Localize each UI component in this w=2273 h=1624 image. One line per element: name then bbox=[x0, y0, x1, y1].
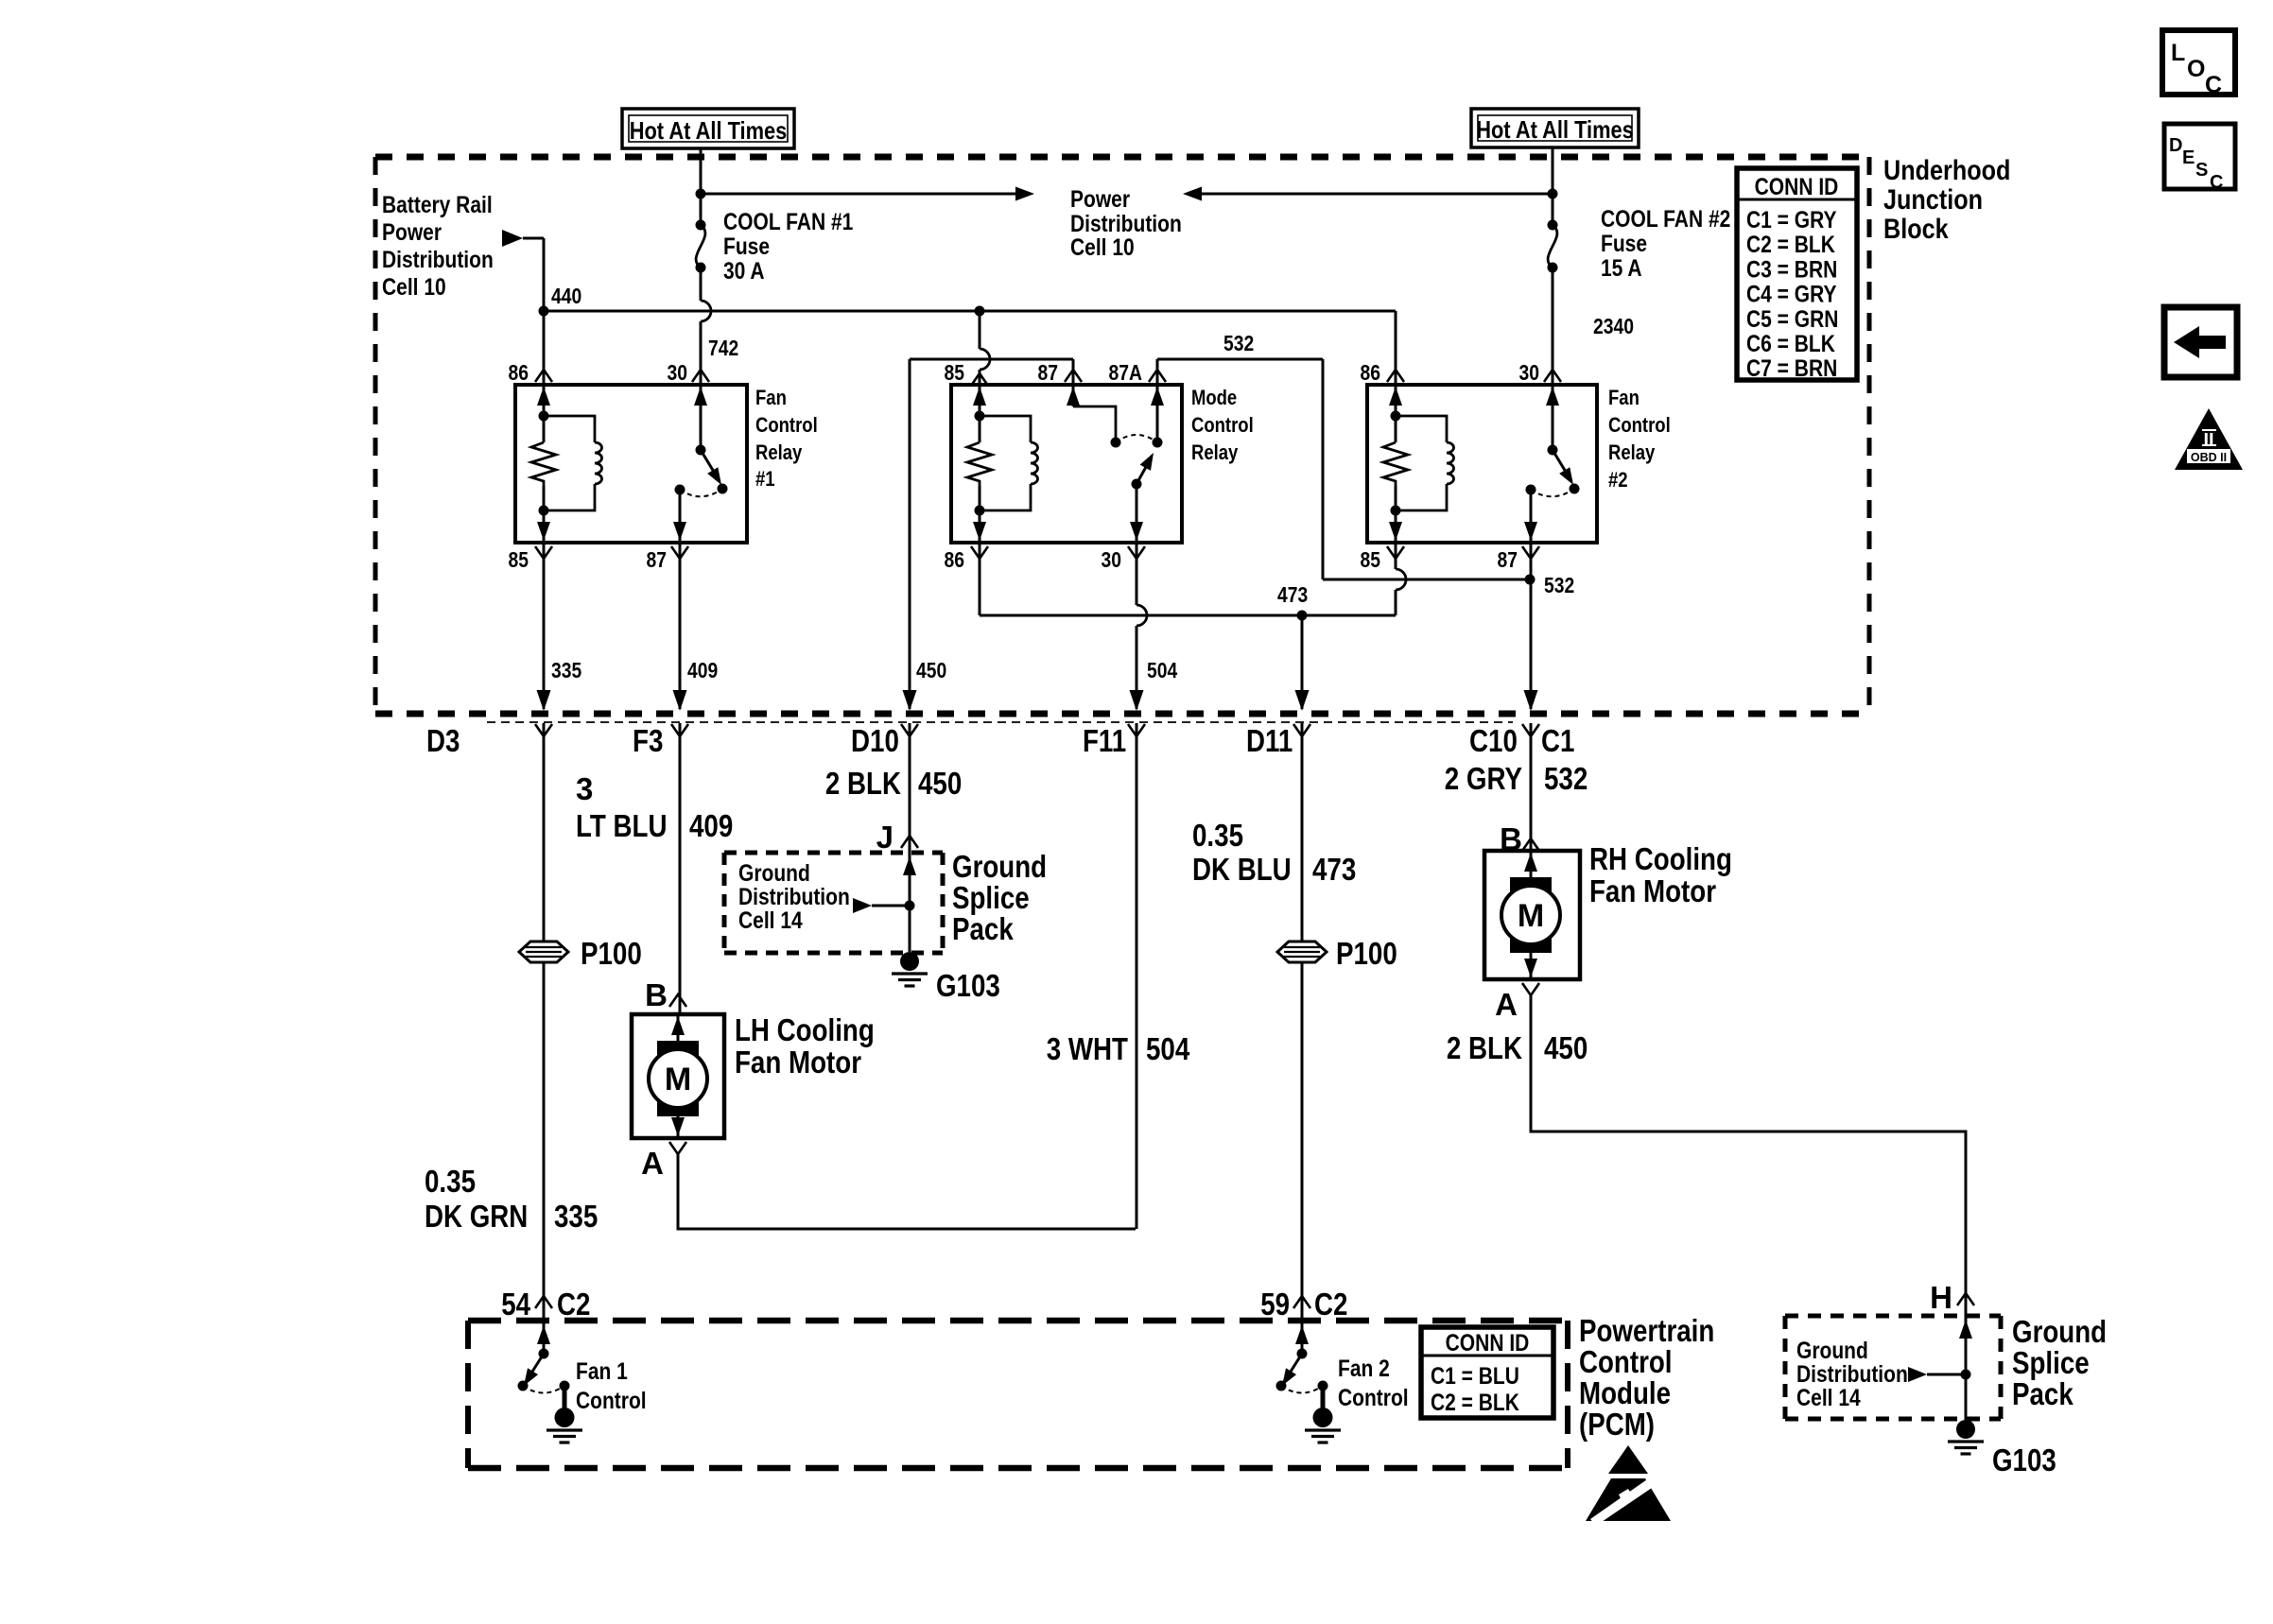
Hot At All Times box 1 bbox=[622, 109, 794, 148]
svg-text:C4 = GRY: C4 = GRY bbox=[1746, 282, 1837, 308]
svg-text:Fan: Fan bbox=[755, 386, 787, 409]
connector P100 on wire 335 bbox=[519, 936, 642, 971]
svg-text:2 GRY: 2 GRY bbox=[1445, 761, 1522, 796]
svg-text:C2: C2 bbox=[1314, 1287, 1347, 1322]
pin 54 C2 bbox=[501, 1287, 590, 1322]
svg-text:30 A: 30 A bbox=[723, 258, 765, 285]
wire 504 mode-30 to F11 (hops 473) bbox=[1130, 543, 1178, 711]
pin J bbox=[876, 820, 918, 855]
svg-text:COOL FAN #2: COOL FAN #2 bbox=[1601, 206, 1730, 233]
svg-text:CONN ID: CONN ID bbox=[1446, 1330, 1530, 1356]
svg-text:O: O bbox=[2187, 56, 2205, 82]
svg-text:15 A: 15 A bbox=[1601, 255, 1642, 282]
svg-text:Cell 14: Cell 14 bbox=[1796, 1385, 1861, 1411]
svg-text:Powertrain: Powertrain bbox=[1579, 1313, 1714, 1348]
svg-text:Junction: Junction bbox=[1883, 184, 1983, 216]
svg-text:C2 = BLK: C2 = BLK bbox=[1431, 1390, 1519, 1416]
svg-text:Control: Control bbox=[1608, 413, 1671, 437]
svg-text:(PCM): (PCM) bbox=[1579, 1407, 1655, 1442]
svg-text:A: A bbox=[641, 1146, 664, 1181]
wire 440 horizontal bbox=[544, 310, 1396, 313]
label 3 LT BLU 409 bbox=[576, 771, 733, 843]
svg-text:86: 86 bbox=[945, 547, 965, 572]
label 3 WHT 504 bbox=[1047, 1031, 1190, 1066]
svg-text:H: H bbox=[1930, 1280, 1952, 1315]
svg-text:85: 85 bbox=[509, 547, 529, 572]
svg-text:450: 450 bbox=[916, 658, 946, 682]
label Battery Rail Power Distribution Cell 10 bbox=[382, 192, 494, 301]
svg-text:RH Cooling: RH Cooling bbox=[1589, 841, 1732, 876]
svg-text:C6 = BLK: C6 = BLK bbox=[1746, 331, 1835, 357]
CONN ID table (junction block) bbox=[1737, 168, 1857, 382]
junction block connector face (thin dashed) bbox=[487, 721, 1513, 723]
svg-text:Ground: Ground bbox=[952, 849, 1047, 884]
svg-text:C1 = BLU: C1 = BLU bbox=[1431, 1363, 1519, 1390]
svg-text:Distribution: Distribution bbox=[1796, 1361, 1908, 1388]
svg-text:Fuse: Fuse bbox=[723, 233, 770, 260]
DESC icon bbox=[2164, 124, 2235, 193]
label 2 BLK 450 bbox=[825, 766, 962, 801]
svg-text:532: 532 bbox=[1544, 761, 1588, 796]
svg-text:G103: G103 bbox=[1992, 1443, 2056, 1477]
svg-text:Cell 10: Cell 10 bbox=[1070, 234, 1135, 261]
Ground Splice Pack (right) dashed box bbox=[1785, 1316, 2001, 1419]
Fan 1 Control driver bbox=[518, 1321, 647, 1443]
svg-text:Relay: Relay bbox=[1191, 441, 1239, 464]
svg-text:Relay: Relay bbox=[755, 441, 803, 464]
ground G103 (right) bbox=[1948, 1420, 2056, 1477]
svg-text:532: 532 bbox=[1544, 573, 1574, 597]
svg-text:Fan 1: Fan 1 bbox=[576, 1358, 628, 1385]
PCM dashed box bbox=[468, 1321, 1568, 1468]
RH Cooling Fan Motor bbox=[1484, 841, 1732, 979]
svg-text:B: B bbox=[645, 977, 668, 1012]
svg-text:Power: Power bbox=[382, 219, 442, 246]
svg-text:Fan: Fan bbox=[1608, 386, 1640, 409]
svg-text:Fan Motor: Fan Motor bbox=[1589, 873, 1716, 908]
svg-text:Hot At All Times: Hot At All Times bbox=[630, 116, 788, 145]
wire 532 from mode relay 87A bbox=[1149, 331, 1574, 597]
connector labels D3 F3 D10 F11 D11 C10 C1 bbox=[426, 723, 1574, 758]
svg-text:0.35: 0.35 bbox=[425, 1164, 476, 1199]
wire mode relay 85 from 440 (hops over) bbox=[971, 311, 990, 386]
wire arrow to Power Distribution Cell 10 (right) bbox=[701, 193, 1017, 196]
svg-text:85: 85 bbox=[1361, 547, 1381, 572]
label 2 BLK 450 (RH) bbox=[1447, 1030, 1588, 1065]
svg-text:473: 473 bbox=[1312, 852, 1356, 887]
wire D10 2 BLK 450 to ground splice pack bbox=[909, 723, 911, 853]
label Power Distribution Cell 10 bbox=[1070, 186, 1182, 261]
svg-text:87: 87 bbox=[647, 547, 668, 572]
svg-text:2340: 2340 bbox=[1593, 314, 1634, 338]
svg-text:#1: #1 bbox=[755, 467, 775, 491]
svg-text:Block: Block bbox=[1883, 214, 1949, 245]
svg-text:Control: Control bbox=[576, 1388, 647, 1414]
wire arrow to Power Distribution Cell 10 (left) bbox=[1200, 193, 1553, 196]
svg-text:30: 30 bbox=[1102, 547, 1122, 572]
label B / RH Cooling Fan Motor bbox=[1500, 821, 1539, 856]
svg-text:409: 409 bbox=[687, 658, 718, 682]
svg-text:J: J bbox=[876, 820, 894, 855]
svg-text:Pack: Pack bbox=[952, 911, 1014, 946]
svg-text:Ground: Ground bbox=[2012, 1314, 2107, 1349]
label Underhood Junction Block bbox=[1883, 155, 2010, 245]
label Powertrain Control Module (PCM) bbox=[1579, 1313, 1714, 1442]
wire 742 fuse to relay 1 pin 30 (hops 440) bbox=[692, 268, 738, 385]
label A below LH motor bbox=[641, 1142, 686, 1181]
wire D3 to PCM pin 54 C2 bbox=[543, 723, 546, 1321]
svg-text:59: 59 bbox=[1260, 1287, 1290, 1322]
svg-text:Control: Control bbox=[1338, 1385, 1409, 1411]
svg-text:86: 86 bbox=[509, 360, 529, 385]
splice junction (right pack) bbox=[1959, 1316, 1972, 1420]
svg-text:30: 30 bbox=[1519, 360, 1540, 385]
svg-text:M: M bbox=[1518, 898, 1544, 934]
svg-text:C2 = BLK: C2 = BLK bbox=[1746, 232, 1835, 258]
svg-text:742: 742 bbox=[708, 336, 738, 360]
svg-text:3 WHT: 3 WHT bbox=[1047, 1031, 1128, 1066]
wire 440 drop to relay 2 pin 86 bbox=[1395, 311, 1397, 385]
wire D11 drop from 473 junction bbox=[1301, 615, 1304, 709]
wire battery 440 to relay 1 pin 86 bbox=[543, 311, 546, 385]
svg-text:504: 504 bbox=[1147, 658, 1177, 682]
svg-text:87: 87 bbox=[1498, 547, 1518, 572]
svg-text:#2: #2 bbox=[1608, 468, 1628, 492]
svg-text:D: D bbox=[2169, 135, 2182, 156]
svg-text:86: 86 bbox=[1361, 360, 1381, 385]
svg-text:Ground: Ground bbox=[1796, 1338, 1868, 1364]
ESD sensitive symbol bbox=[1586, 1445, 1671, 1526]
svg-text:S: S bbox=[2195, 160, 2208, 181]
fuse COOL FAN #1 30 A bbox=[696, 209, 854, 285]
svg-text:Fan 2: Fan 2 bbox=[1338, 1356, 1390, 1382]
wire 532 relay2-87 to C1 bbox=[1530, 543, 1533, 709]
wire F11 down bbox=[1136, 723, 1138, 1229]
label B / LH Cooling Fan Motor bbox=[645, 977, 686, 1012]
svg-text:450: 450 bbox=[918, 766, 962, 801]
svg-text:Cell 14: Cell 14 bbox=[738, 907, 803, 934]
connector P100 on wire 473 bbox=[1277, 936, 1397, 971]
pin H bbox=[1930, 1280, 1974, 1315]
label 0.35 DK GRN 335 bbox=[425, 1164, 598, 1234]
svg-text:Underhood: Underhood bbox=[1883, 155, 2010, 186]
svg-text:E: E bbox=[2182, 147, 2195, 168]
svg-text:F11: F11 bbox=[1083, 723, 1126, 758]
wire D11 to PCM pin 59 C2 bbox=[1301, 723, 1304, 1321]
svg-text:Cell 10: Cell 10 bbox=[382, 274, 446, 301]
wire LH motor A to F11 bbox=[678, 1154, 1136, 1229]
label A below RH motor bbox=[1495, 983, 1539, 1022]
OBD II icon bbox=[2175, 408, 2243, 470]
wire mode relay 87 to D10 (line y=380) bbox=[903, 359, 1083, 711]
svg-text:D11: D11 bbox=[1246, 723, 1293, 758]
svg-text:DK BLU: DK BLU bbox=[1192, 852, 1292, 887]
svg-text:C3 = BRN: C3 = BRN bbox=[1746, 256, 1837, 283]
wire 409 relay1-87 to F3 bbox=[679, 543, 682, 709]
svg-text:87: 87 bbox=[1038, 360, 1059, 385]
svg-text:P100: P100 bbox=[1336, 936, 1397, 971]
Ground Distribution Cell 14 label (right) bbox=[1796, 1338, 1966, 1411]
svg-text:LH Cooling: LH Cooling bbox=[735, 1012, 875, 1047]
label 2 GRY 532 bbox=[1445, 761, 1588, 796]
svg-text:87A: 87A bbox=[1109, 360, 1143, 385]
svg-text:C1 = GRY: C1 = GRY bbox=[1746, 207, 1837, 233]
Fan Control Relay #2 bbox=[1361, 360, 1671, 572]
fuse COOL FAN #2 15 A bbox=[1548, 206, 1731, 282]
wire 2340 to relay 2 pin 30 bbox=[1544, 268, 1634, 385]
svg-text:Control: Control bbox=[755, 413, 818, 437]
svg-text:Fan Motor: Fan Motor bbox=[735, 1045, 861, 1080]
svg-text:COOL FAN #1: COOL FAN #1 bbox=[723, 209, 853, 235]
svg-text:Mode: Mode bbox=[1191, 386, 1237, 409]
LOC icon bbox=[2162, 30, 2235, 98]
Ground Splice Pack (center) dashed box bbox=[724, 853, 943, 953]
wire 335 relay1-85 to D3 bbox=[543, 543, 546, 709]
svg-text:OBD II: OBD II bbox=[2191, 451, 2227, 464]
svg-text:C1: C1 bbox=[1541, 723, 1574, 758]
wire from Hot box 2 to fuse COOL FAN #2 bbox=[1552, 147, 1554, 225]
svg-text:473: 473 bbox=[1277, 582, 1308, 607]
LH Cooling Fan Motor bbox=[632, 1012, 875, 1138]
battery rail feed arrow bbox=[502, 230, 544, 311]
ground G103 (center) bbox=[892, 952, 1000, 1003]
svg-text:F3: F3 bbox=[633, 723, 663, 758]
svg-text:C10: C10 bbox=[1469, 723, 1518, 758]
svg-text:335: 335 bbox=[554, 1199, 598, 1234]
svg-text:Fuse: Fuse bbox=[1601, 231, 1647, 257]
svg-text:3: 3 bbox=[576, 771, 593, 806]
wire 473 mode-86 to relay2-85 bbox=[980, 543, 1406, 621]
svg-text:LT BLU: LT BLU bbox=[576, 808, 668, 843]
svg-text:Control: Control bbox=[1579, 1344, 1673, 1379]
Ground Distribution Cell 14 label (center) bbox=[738, 860, 910, 934]
svg-text:M: M bbox=[665, 1062, 691, 1097]
svg-text:A: A bbox=[1495, 987, 1518, 1022]
svg-text:30: 30 bbox=[668, 360, 688, 385]
wire from Hot box 1 to fuse COOL FAN #1 bbox=[700, 148, 703, 225]
svg-text:409: 409 bbox=[689, 808, 733, 843]
svg-text:Relay: Relay bbox=[1608, 441, 1656, 464]
svg-text:2 BLK: 2 BLK bbox=[1447, 1030, 1522, 1065]
svg-text:Hot At All Times: Hot At All Times bbox=[1476, 115, 1634, 144]
Mode Control Relay bbox=[945, 360, 1254, 572]
underhood junction block dashed boundary bbox=[375, 154, 1869, 161]
svg-text:P100: P100 bbox=[581, 936, 642, 971]
svg-text:C7 = BRN: C7 = BRN bbox=[1746, 355, 1837, 382]
label Ground Splice Pack (right) bbox=[2012, 1314, 2107, 1411]
svg-text:D10: D10 bbox=[851, 723, 899, 758]
wire F3 to LH fan motor B bbox=[679, 723, 682, 1014]
svg-text:C2: C2 bbox=[557, 1287, 590, 1322]
svg-text:CONN ID: CONN ID bbox=[1755, 174, 1839, 200]
Fan Control Relay #1 bbox=[509, 360, 818, 572]
svg-text:G103: G103 bbox=[936, 968, 1000, 1003]
svg-text:II: II bbox=[2203, 430, 2213, 451]
wire C1 2 GRY 532 to RH fan motor B bbox=[1530, 723, 1533, 851]
svg-text:85: 85 bbox=[945, 360, 965, 385]
svg-text:335: 335 bbox=[551, 658, 581, 682]
svg-text:Distribution: Distribution bbox=[382, 247, 494, 273]
svg-text:Splice: Splice bbox=[952, 880, 1030, 915]
svg-text:532: 532 bbox=[1223, 331, 1254, 355]
svg-text:Splice: Splice bbox=[2012, 1345, 2090, 1380]
svg-text:Module: Module bbox=[1579, 1375, 1671, 1410]
svg-text:Distribution: Distribution bbox=[1070, 211, 1182, 237]
svg-text:Distribution: Distribution bbox=[738, 884, 850, 910]
svg-text:Pack: Pack bbox=[2012, 1376, 2073, 1411]
label 0.35 DK BLU 473 bbox=[1192, 818, 1356, 887]
CONN ID table (PCM) bbox=[1421, 1327, 1553, 1418]
svg-text:504: 504 bbox=[1146, 1031, 1190, 1066]
svg-text:D3: D3 bbox=[426, 723, 460, 758]
connector pins at junction block bottom bbox=[535, 724, 552, 736]
pin 59 C2 bbox=[1260, 1287, 1347, 1322]
svg-text:DK GRN: DK GRN bbox=[425, 1199, 528, 1234]
svg-text:Ground: Ground bbox=[738, 860, 810, 887]
svg-text:54: 54 bbox=[501, 1287, 530, 1322]
svg-text:C: C bbox=[2210, 172, 2223, 193]
svg-text:Control: Control bbox=[1191, 413, 1254, 437]
svg-text:Battery Rail: Battery Rail bbox=[382, 192, 493, 218]
label Ground Splice Pack (center) bbox=[952, 849, 1047, 946]
svg-text:440: 440 bbox=[551, 284, 581, 308]
svg-text:2 BLK: 2 BLK bbox=[825, 766, 901, 801]
Fan 2 Control driver bbox=[1276, 1321, 1409, 1443]
Hot At All Times box 2 bbox=[1471, 109, 1639, 147]
svg-text:L: L bbox=[2171, 40, 2185, 66]
back arrow icon bbox=[2164, 307, 2237, 377]
wire RH motor A to ground splice pack H bbox=[1531, 995, 1966, 1316]
svg-text:Power: Power bbox=[1070, 186, 1130, 213]
svg-text:C5 = GRN: C5 = GRN bbox=[1746, 306, 1838, 333]
svg-text:0.35: 0.35 bbox=[1192, 818, 1243, 853]
splice junction in ground splice pack bbox=[903, 853, 916, 952]
svg-text:450: 450 bbox=[1544, 1030, 1588, 1065]
svg-text:C: C bbox=[2205, 72, 2222, 98]
